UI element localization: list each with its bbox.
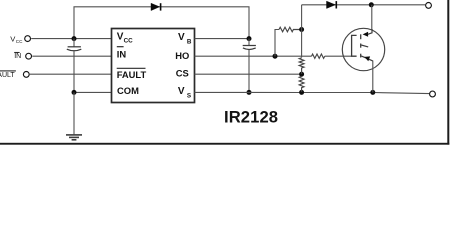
svg-text:V: V [178,32,185,43]
resistor R4 gate [312,54,325,58]
junction dot node A [299,27,304,32]
diode D2 drain sense [327,1,337,8]
svg-text:CC: CC [124,37,134,44]
pin label VS [178,86,191,100]
resistor R1 (HO to node A) [279,27,301,32]
wire FAULT terminal to IC [30,73,112,75]
wire VB pin to bootstrap cap [195,38,250,40]
pin label VCC [117,32,133,45]
junction dot CS [299,72,304,77]
svg-text:IN: IN [117,48,127,59]
junction dot VCC / C1 [72,36,77,41]
svg-text:CS: CS [176,68,189,79]
pin label IN [117,47,127,60]
transistor Q1 channel stub bottom [360,54,362,58]
junction dot VB [247,36,252,41]
svg-text:CC: CC [16,39,23,44]
wire COM junction down to ground [73,92,75,134]
pin label VB [178,32,192,46]
wire HO pin to gate [195,55,312,57]
IC U1 IR2128 package outline [112,29,195,103]
svg-text:FAULT: FAULT [117,69,147,80]
terminal IN [26,53,32,59]
wire source vertical to VS [372,61,374,93]
wire COM pin to ground drop [74,91,112,93]
transistor Q1 gate bracket [352,35,357,56]
junction dot VS / divider [299,90,304,95]
resistor R3 (CS to VS) [299,76,304,92]
wire drain vertical [371,5,373,30]
pin label FAULT [117,68,147,80]
svg-text:B: B [187,39,192,46]
wire top rail 2 (node A through D2 to drain and output) [302,4,426,6]
wire IN terminal to IC [32,55,111,57]
transistor Q1 channel stub middle [360,44,362,48]
transistor Q1 MOSFET body circle [342,28,384,70]
svg-text:IN: IN [14,53,21,60]
transistor Q1 channel stub top [360,34,362,39]
node VCC terminal label [10,34,23,44]
junction dot COM [72,90,77,95]
wire HO junction up to R1 [275,30,279,57]
node FAULT terminal label [0,71,16,79]
svg-text:IR2128: IR2128 [224,108,278,127]
svg-text:S: S [187,93,191,100]
transistor Q1 source stroke with arrow [361,56,373,61]
svg-text:FAULT: FAULT [0,72,15,79]
node IN terminal label [14,53,21,61]
wire top rail 1 (VCC to bootstrap diode to VB) [74,7,249,39]
capacitor C1 (VCC decoupling, polarized) [67,39,82,93]
wire VCC terminal to IC [31,38,111,40]
junction dot VS / source [370,90,375,95]
terminal VCC [25,36,31,42]
transistor Q1 drain stroke with arrow [363,29,372,37]
junction dot HO / R1 [273,54,278,59]
wire gate resistor to MOSFET gate [325,55,352,57]
transistor Q1 body stroke [361,45,368,47]
svg-text:HO: HO [175,50,189,61]
terminal FAULT [23,72,29,78]
svg-text:V: V [178,86,185,97]
junction dot C2 / VS [247,90,252,95]
wire VS pin to output terminal [195,92,430,93]
terminal VS output [430,91,436,97]
wire node A vertical from diode D2 anode [301,5,303,58]
diode D1 bootstrap [151,3,161,10]
wire CS pin to divider [195,73,302,75]
capacitor C2 bootstrap (polarized) [243,39,256,93]
terminal drain supply [426,3,432,9]
svg-text:COM: COM [117,85,139,96]
resistor R2 (node A to CS) [299,58,304,74]
ground [66,135,82,140]
figure border right [447,0,449,145]
figure border bottom [0,143,449,145]
junction dot drain [369,2,374,7]
